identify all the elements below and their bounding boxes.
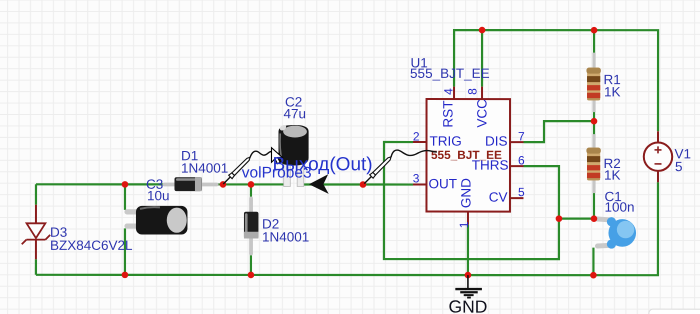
zener diode D3 BZX84C6V2L [22, 205, 50, 260]
junction dot probe right [360, 181, 367, 188]
svg-text:1N4001: 1N4001 [262, 229, 309, 244]
junction dot TRIG/THRS [556, 215, 563, 222]
wire R1 top [593, 30, 595, 53]
junction dot top R1 [591, 27, 598, 34]
svg-text:2: 2 [413, 130, 420, 144]
svg-text:100n: 100n [604, 200, 634, 215]
wire left rail horizontal [36, 183, 163, 185]
pin 5 stub CV [510, 197, 524, 199]
pin 3 stub OUT [413, 184, 427, 186]
svg-text:1K: 1K [604, 84, 621, 99]
svg-text:RST: RST [441, 101, 456, 128]
junction dot C3 top [122, 181, 129, 188]
resistor R2 [586, 134, 600, 193]
pin 2 stub TRIG [413, 141, 427, 143]
junction dot D2 bottom [248, 272, 255, 279]
svg-text:4: 4 [442, 88, 456, 95]
wire D2 top [250, 184, 252, 197]
junction dot top pin8 [479, 27, 486, 34]
svg-text:5: 5 [518, 185, 525, 199]
wire C2 right lead to OUT pin [304, 183, 413, 185]
wire bottom rail [36, 182, 658, 275]
wire C3 top [124, 184, 126, 210]
svg-text:8: 8 [466, 88, 480, 95]
svg-text:DIS: DIS [485, 134, 508, 149]
svg-text:TRIG: TRIG [430, 134, 462, 149]
svg-text:6: 6 [518, 153, 525, 167]
wire R1 bottom to R2 top [593, 112, 595, 135]
svg-text:1N4001: 1N4001 [181, 161, 228, 176]
capacitor C2 47u (vertical electrolytic) [278, 124, 308, 187]
junction dot DIS/R1/R2 [591, 118, 598, 125]
mouse cursor [271, 148, 282, 164]
wire C3 bottom [124, 228, 126, 274]
wire junction to C1 top [559, 218, 594, 220]
svg-text:47u: 47u [284, 106, 307, 121]
wire top rail VCC net [454, 30, 658, 131]
junction dot R2/C1 [591, 215, 598, 222]
svg-text:OUT: OUT [428, 176, 457, 191]
wire D3 bottom [35, 259, 37, 275]
svg-text:THRS: THRS [472, 158, 509, 173]
junction dot probe left [220, 181, 227, 188]
svg-text:10u: 10u [147, 188, 170, 203]
capacitor C3 10u (horizontal electrolytic) [124, 206, 187, 235]
wire GND pin drop [467, 225, 469, 275]
svg-text:555_BJT_EE: 555_BJT_EE [410, 66, 490, 81]
pin 7 stub DIS [510, 141, 524, 143]
svg-text:3: 3 [413, 171, 420, 185]
junction dot D2 top [248, 181, 255, 188]
svg-text:CV: CV [489, 190, 508, 205]
svg-text:VCC: VCC [475, 99, 490, 128]
junction dot C3 bottom [122, 272, 129, 279]
pin 8 stub VCC [481, 87, 483, 99]
wire DIS net [524, 121, 595, 142]
capacitor C1 (blue disc) [597, 217, 636, 249]
wire pin8 drop [481, 30, 483, 86]
wire C1 bottom [592, 248, 594, 275]
pin 1 stub GND [467, 212, 469, 225]
svg-text:7: 7 [518, 129, 525, 143]
svg-text:1: 1 [457, 221, 471, 228]
wire D2 bottom [250, 255, 252, 275]
resistor R1 [586, 53, 600, 113]
diode D1 1N4001 (horizontal) [162, 177, 218, 191]
wire D3 top [35, 184, 37, 205]
svg-text:volProbe3: volProbe3 [242, 165, 312, 182]
tooltip box bottom right [649, 309, 700, 314]
voltage source V1 [644, 131, 672, 182]
svg-text:1K: 1K [604, 168, 621, 183]
pin 4 stub RST [453, 87, 455, 99]
junction dot C1 bottom rail [590, 272, 597, 279]
op-amp U1 555_BJT_EE chip body [426, 99, 510, 212]
pin 6 stub THRS [510, 165, 523, 167]
wire R2 bottom to junction [593, 193, 595, 219]
svg-text:BZX84C6V2L: BZX84C6V2L [50, 238, 133, 253]
junction dot GND rail [465, 272, 472, 279]
output arrow marker [309, 174, 329, 194]
wire D1 to C2 left lead [218, 183, 284, 185]
probe volProbe3 (left) [223, 151, 272, 184]
svg-text:5: 5 [675, 159, 683, 174]
diode D2 1N4001 (vertical) [244, 196, 259, 255]
probe (right, on OUT pin net) [364, 150, 437, 184]
ground symbol [448, 275, 487, 314]
wire THRS-TRIG net [384, 142, 559, 259]
svg-text:GND: GND [458, 178, 473, 208]
svg-text:GND: GND [448, 297, 487, 314]
